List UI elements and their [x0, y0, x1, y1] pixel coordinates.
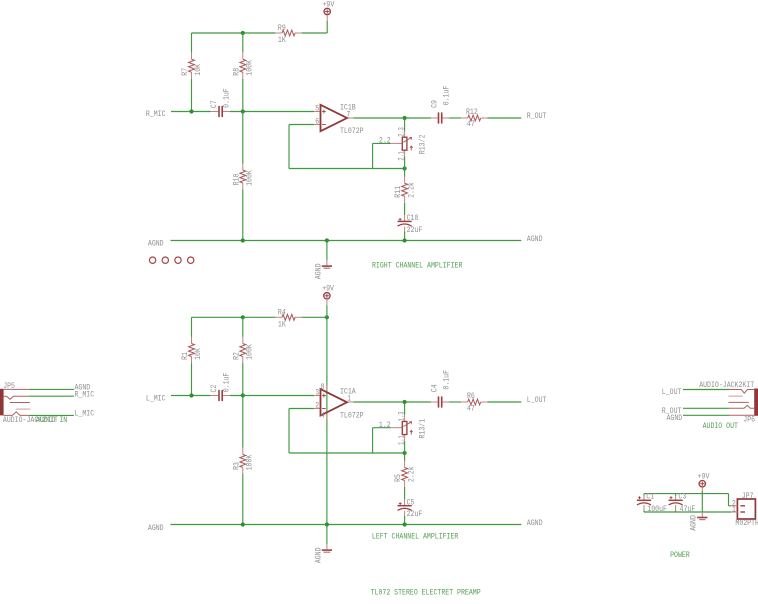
- svg-text:2.2: 2.2: [379, 137, 391, 146]
- svg-text:JP6: JP6: [743, 416, 755, 425]
- svg-text:L_MIC: L_MIC: [75, 409, 95, 418]
- svg-text:100K: 100K: [246, 60, 255, 76]
- svg-text:C2: C2: [210, 384, 219, 392]
- capacitor C7 0.1uF: [210, 88, 231, 117]
- svg-text:AGND: AGND: [148, 524, 164, 533]
- wire R11 column: [404, 169, 406, 177]
- ground AGND bottom: [314, 525, 332, 564]
- wire JP5 L_MIC: [29, 414, 74, 416]
- wire bottom supply rail: [192, 316, 276, 318]
- svg-text:100uF: 100uF: [647, 505, 667, 514]
- node rail junction R10: [241, 238, 245, 242]
- wire R8 column: [242, 33, 244, 53]
- svg-text:C10: C10: [407, 214, 419, 223]
- svg-text:R8: R8: [232, 68, 241, 76]
- svg-text:AUDIO-JACK2KIT: AUDIO-JACK2KIT: [699, 381, 754, 390]
- svg-text:AGND: AGND: [148, 240, 164, 249]
- wire trimpot wiper top: [373, 142, 391, 144]
- wire L_MIC: [171, 395, 211, 397]
- svg-text:6: 6: [315, 117, 319, 126]
- resistor R11 2.2k: [394, 177, 416, 203]
- ground AGND top: [314, 241, 332, 280]
- wire op-amp feedback pin2: [289, 408, 314, 410]
- node junction R1/L_MIC: [189, 393, 193, 397]
- wire trimpot column top: [404, 118, 406, 131]
- wire power top rail: [644, 493, 729, 495]
- pin JP5 R_MIC switch: [4, 396, 29, 399]
- svg-text:R12: R12: [466, 108, 478, 117]
- connector JP5 AUDIO-JACK2KIT: [0, 382, 15, 416]
- svg-text:47: 47: [467, 120, 475, 129]
- svg-text:AGND: AGND: [314, 263, 323, 279]
- svg-text:AGND: AGND: [690, 515, 699, 531]
- svg-text:R13/1: R13/1: [419, 419, 428, 439]
- svg-text:47uF: 47uF: [680, 505, 696, 514]
- svg-text:+9V: +9V: [323, 0, 335, 9]
- svg-text:100K: 100K: [246, 344, 255, 360]
- op-amp U2 IC1A: [314, 383, 364, 421]
- svg-text:1K: 1K: [278, 320, 286, 329]
- pin JP6 AGND: [729, 414, 754, 416]
- node rail junction C5: [403, 522, 407, 526]
- svg-text:R11: R11: [394, 186, 403, 198]
- resistor R5 2.2k: [394, 461, 416, 487]
- pin JP7 pin1: [731, 511, 737, 513]
- capacitor C3 47uF: [669, 493, 696, 514]
- node rail junction C10: [403, 238, 407, 242]
- power +9V supply bottom: [324, 293, 330, 306]
- wire op-amp output top: [353, 117, 431, 119]
- wire R3 column: [242, 396, 244, 448]
- pin JP6 contact bar 2: [728, 395, 742, 397]
- svg-text:L_OUT: L_OUT: [662, 388, 682, 397]
- svg-text:8: 8: [321, 383, 325, 392]
- wire +9V stub power: [701, 491, 703, 493]
- wire R7 column: [191, 33, 193, 53]
- resistor R6 47: [461, 392, 487, 413]
- wire R5 column: [404, 453, 406, 461]
- resistor R10: [232, 164, 254, 190]
- wire top supply rail: [192, 32, 276, 34]
- svg-text:TL072P: TL072P: [340, 412, 364, 421]
- svg-text:2.2k: 2.2k: [407, 466, 416, 482]
- svg-text:0.1uF: 0.1uF: [443, 370, 452, 390]
- capacitor C10 22uF: [398, 214, 423, 235]
- wire +9V column power: [701, 494, 703, 512]
- svg-text:R3: R3: [232, 462, 241, 470]
- wire op-amp output bottom: [353, 401, 431, 403]
- pin JP6 R_OUT switch: [729, 405, 754, 408]
- wire JP5 R_MIC: [29, 395, 74, 397]
- wire power corner to pin2: [728, 494, 730, 506]
- capacitor C9 0.1uF: [431, 85, 452, 123]
- capacitor C1 100uF: [637, 493, 667, 514]
- wire JP6 R_OUT: [683, 407, 729, 409]
- trimmer R13/2: [379, 127, 428, 161]
- svg-text:0.1uF: 0.1uF: [223, 372, 232, 392]
- svg-text:C5: C5: [407, 498, 415, 507]
- node output junction top: [403, 116, 407, 120]
- node junction R2/L_MIC: [241, 393, 245, 397]
- svg-text:R10: R10: [232, 173, 241, 185]
- svg-text:R2: R2: [232, 352, 241, 360]
- resistor R2: [232, 337, 254, 363]
- svg-text:10K: 10K: [194, 348, 203, 360]
- svg-text:R1: R1: [181, 352, 190, 360]
- trimmer R13/1: [379, 411, 428, 445]
- svg-text:R_MIC: R_MIC: [75, 390, 95, 399]
- op-amp U1 IC1B: [314, 103, 364, 136]
- connector JP6 AUDIO-JACK2KIT: [699, 381, 758, 424]
- svg-text:R7: R7: [181, 68, 190, 76]
- svg-text:1: 1: [732, 506, 736, 515]
- pin JP5 contact bar 2: [16, 408, 30, 410]
- wire AGND rail top: [171, 240, 522, 242]
- svg-text:AUDIO OUT: AUDIO OUT: [703, 422, 739, 431]
- wire R_MIC: [171, 111, 211, 113]
- svg-text:IC1B: IC1B: [340, 103, 356, 112]
- svg-text:100K: 100K: [246, 455, 255, 471]
- svg-text:2.2k: 2.2k: [407, 182, 416, 198]
- wire C5 to AGND rail: [404, 516, 406, 525]
- svg-text:2: 2: [315, 401, 319, 410]
- wire R10 column: [242, 112, 244, 164]
- pin JP6 contact bar 1: [728, 401, 748, 403]
- node output junction bottom: [403, 400, 407, 404]
- wire JP5 AGND: [29, 388, 74, 390]
- capacitor C4 0.1uF: [431, 370, 452, 408]
- wire trimpot wiper bottom: [373, 427, 391, 429]
- svg-text:R6: R6: [467, 392, 475, 401]
- svg-text:47: 47: [467, 405, 475, 414]
- wire AGND rail bottom: [171, 524, 522, 526]
- svg-text:IC1A: IC1A: [340, 388, 356, 397]
- svg-text:5: 5: [315, 104, 319, 113]
- svg-text:+9V: +9V: [698, 472, 710, 481]
- svg-text:M02PTH: M02PTH: [735, 519, 758, 528]
- wire +9V stub top: [326, 21, 328, 33]
- node junction R8/R_MIC: [241, 109, 245, 113]
- svg-text:RIGHT CHANNEL AMPLIFIER: RIGHT CHANNEL AMPLIFIER: [372, 261, 463, 270]
- resistor R1: [181, 337, 203, 363]
- ground AGND power: [690, 512, 708, 531]
- mounting holes: [149, 257, 193, 263]
- svg-text:C7: C7: [210, 100, 219, 108]
- svg-text:R13/2: R13/2: [419, 134, 428, 154]
- wire C3 column: [675, 494, 677, 496]
- resistor R4: [275, 309, 301, 330]
- node top rail junction: [241, 31, 245, 35]
- svg-text:AGND: AGND: [527, 519, 543, 528]
- svg-text:AGND: AGND: [667, 414, 683, 423]
- svg-text:100K: 100K: [246, 170, 255, 186]
- resistor R12 47: [461, 108, 487, 129]
- svg-text:3: 3: [315, 388, 319, 397]
- svg-text:L_MIC: L_MIC: [146, 395, 166, 404]
- svg-text:R_MIC: R_MIC: [146, 110, 166, 119]
- connector JP7 M02PTH: [732, 492, 758, 528]
- svg-text:0.1uF: 0.1uF: [443, 85, 452, 105]
- wire op-amp power column: [326, 317, 328, 524]
- svg-text:R5: R5: [394, 474, 403, 482]
- wire JP6 L_OUT: [683, 389, 729, 391]
- node rail junction R3: [241, 522, 245, 526]
- svg-text:TL072 STEREO ELECTRET PREAMP: TL072 STEREO ELECTRET PREAMP: [371, 588, 481, 597]
- svg-text:1.3: 1.3: [398, 411, 407, 421]
- wire power bottom rail: [644, 511, 731, 513]
- svg-text:AGND: AGND: [527, 235, 543, 244]
- node rail junction gnd: [325, 238, 329, 242]
- svg-text:+9V: +9V: [322, 285, 334, 294]
- wire C4 to R6: [449, 401, 461, 403]
- resistor R9: [275, 24, 301, 45]
- svg-text:1.1: 1.1: [398, 435, 407, 445]
- svg-text:POWER: POWER: [670, 551, 690, 560]
- svg-text:22uF: 22uF: [407, 510, 423, 519]
- svg-text:4: 4: [321, 411, 325, 420]
- wire R1 column: [191, 317, 193, 337]
- svg-text:22uF: 22uF: [407, 226, 423, 235]
- power +9V supply power section: [699, 481, 705, 494]
- wire JP6 AGND: [683, 414, 729, 416]
- svg-text:AUDIO IN: AUDIO IN: [36, 416, 68, 425]
- svg-text:C1: C1: [646, 493, 654, 502]
- svg-text:L_OUT: L_OUT: [527, 396, 547, 405]
- resistor R3: [232, 448, 254, 474]
- wire op-amp feedback pin6: [289, 124, 314, 126]
- node bottom rail junction R2: [241, 315, 245, 319]
- wire R6 to L_OUT: [488, 401, 522, 403]
- resistor R7: [181, 53, 203, 79]
- svg-text:R_OUT: R_OUT: [527, 112, 547, 121]
- pin JP6 L_OUT switch: [729, 390, 754, 394]
- capacitor C2 0.1uF: [210, 372, 231, 401]
- svg-text:C3: C3: [678, 493, 686, 502]
- pin JP7 pin2: [731, 505, 737, 507]
- wire R2 column: [242, 317, 244, 337]
- wire +9V stub bottom: [326, 305, 328, 317]
- pin JP5 contact bar 1: [10, 402, 30, 404]
- capacitor C5 22uF: [398, 498, 423, 519]
- node junction R7/R_MIC: [189, 109, 193, 113]
- svg-text:AGND: AGND: [314, 547, 323, 563]
- svg-text:C4: C4: [431, 384, 440, 392]
- wire C10 to AGND rail: [404, 232, 406, 241]
- svg-text:R9: R9: [278, 24, 286, 33]
- svg-text:LEFT CHANNEL AMPLIFIER: LEFT CHANNEL AMPLIFIER: [372, 533, 459, 542]
- svg-text:TL072P: TL072P: [340, 127, 364, 136]
- svg-text:R4: R4: [278, 309, 286, 318]
- wire trimpot column bottom: [404, 402, 406, 415]
- wire R12 to R_OUT: [488, 117, 522, 119]
- node feedback junction top: [403, 166, 407, 170]
- svg-text:C9: C9: [431, 100, 440, 108]
- node rail junction opamp gnd: [325, 522, 329, 526]
- svg-text:0.1uF: 0.1uF: [223, 88, 232, 108]
- pin JP5 AGND: [4, 388, 29, 390]
- svg-text:10K: 10K: [194, 64, 203, 76]
- pin JP5 L_MIC switch: [4, 412, 29, 416]
- resistor R8: [232, 53, 254, 79]
- svg-text:2.3: 2.3: [398, 127, 407, 137]
- wire C1 column: [643, 494, 645, 496]
- node feedback junction bottom: [403, 451, 407, 455]
- svg-text:1.2: 1.2: [379, 421, 391, 430]
- wire C9 to R12: [449, 117, 461, 119]
- svg-text:1K: 1K: [278, 36, 286, 45]
- svg-text:2.1: 2.1: [398, 151, 407, 161]
- power +9V supply top: [324, 8, 330, 21]
- node bottom rail junction +9V: [325, 315, 329, 319]
